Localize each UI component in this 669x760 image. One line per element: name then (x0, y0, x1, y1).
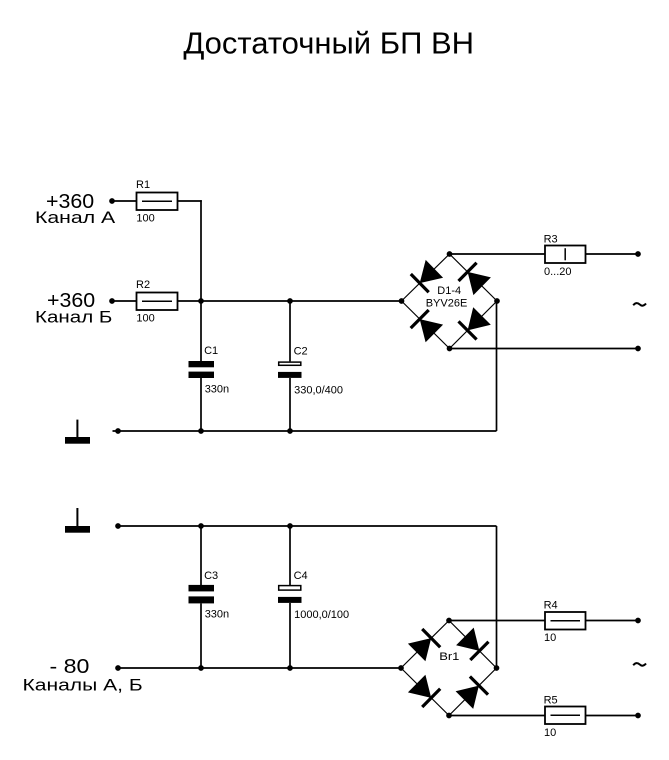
wire ground rail 2 down to Br1 right corner (496, 526, 498, 668)
wire ground rail 2 (118, 525, 497, 527)
diode D3 (bottom-left arm) (411, 310, 443, 342)
ground symbol 1 stem (76, 420, 78, 437)
wire R1 output horizontal (178, 200, 202, 202)
AC tilde mark lower (633, 663, 646, 666)
svg-text:C2: C2 (294, 346, 308, 358)
svg-text:C1: C1 (204, 345, 218, 357)
junction node C2 top (287, 298, 293, 304)
junction node C3 bottom (198, 665, 204, 671)
bridge Br1 edge left-top (401, 621, 449, 669)
resistor R4 body (545, 612, 586, 630)
node bridge bottom corner (447, 346, 453, 352)
bridge D1-4 edge top-right (450, 254, 498, 301)
capacitor C4 positive plate (hollow) (279, 586, 301, 591)
wire R5 to AC terminal (586, 715, 639, 717)
svg-text:0...20: 0...20 (544, 266, 572, 278)
terminal node AC R4 (635, 618, 641, 624)
svg-text:330n: 330n (205, 383, 229, 395)
bridge D1-4 edge bottom-left (402, 301, 450, 349)
capacitor C1 plate bottom (189, 372, 215, 378)
terminal node AC R5 (635, 713, 641, 719)
bridge Br1 edge bottom-left (401, 668, 449, 716)
wire C1 lower lead (200, 378, 202, 431)
junction node C3 top (198, 523, 204, 529)
svg-text:10: 10 (544, 727, 556, 739)
capacitor C3 plate bottom (189, 596, 215, 603)
svg-text:10: 10 (544, 632, 556, 644)
svg-text:BYV26E: BYV26E (426, 297, 468, 309)
wire R2 to bridge left corner (178, 300, 402, 302)
svg-text:- 80: - 80 (50, 654, 90, 677)
wire C3 upper lead (200, 526, 202, 585)
wire input B to R2 (112, 300, 137, 302)
resistor R3 power mark (564, 248, 566, 260)
Br1 diode top-right arm (456, 628, 488, 660)
svg-text:R3: R3 (544, 234, 558, 246)
wire R1 drop vertical to node (200, 200, 202, 301)
capacitor C1 plate top (189, 361, 215, 367)
wire R3 to AC terminal (586, 253, 639, 255)
svg-text:100: 100 (136, 312, 154, 324)
wire C1 upper lead (200, 301, 202, 361)
resistor R2 power mark (142, 300, 172, 302)
diode D1 (top-left arm) (411, 260, 443, 292)
junction node C1 bottom (198, 428, 204, 434)
junction node C4 top (287, 523, 293, 529)
junction node C4 bottom (287, 665, 293, 671)
svg-text:Каналы А, Б: Каналы А, Б (23, 676, 143, 695)
node bridge top corner (447, 251, 453, 257)
resistor R5 body (545, 707, 586, 725)
resistor R1 power mark (142, 200, 172, 202)
wire -80 rail to Br1 left corner (118, 667, 401, 669)
svg-text:Br1: Br1 (439, 650, 460, 663)
diode D2 (top-right arm) (459, 263, 491, 295)
svg-text:D1-4: D1-4 (437, 285, 461, 297)
wire bridge top corner to R3 (450, 253, 546, 255)
Br1 diode top-left arm (408, 629, 440, 661)
wire Br1 top corner to R4 (449, 620, 545, 622)
node bridge left corner (399, 298, 405, 304)
node ground rail 1 left (115, 428, 121, 434)
Br1 diode bottom-left arm (408, 675, 440, 707)
terminal node +360 channel B (109, 298, 115, 304)
terminal node AC lower (635, 346, 641, 352)
svg-text:100: 100 (136, 212, 154, 224)
wire ground rail 1 (113, 430, 497, 432)
resistor R1 body (137, 193, 178, 211)
ground symbol 2 stem (76, 508, 78, 526)
wire C3 lower lead (200, 603, 202, 668)
svg-text:330n: 330n (205, 608, 229, 620)
node Br1 left corner (398, 665, 404, 671)
svg-text:R2: R2 (136, 279, 150, 291)
Br1 diode bottom-right arm (456, 677, 488, 709)
wire bridge bottom corner to AC terminal (450, 348, 639, 350)
junction node R1/R2/C1 (198, 298, 204, 304)
wire C2 lower lead (289, 378, 291, 431)
svg-text:330,0/400: 330,0/400 (294, 384, 343, 396)
bridge Br1 edge right-bottom (449, 668, 497, 716)
wire C4 upper lead (289, 526, 291, 585)
resistor R2 body (137, 293, 178, 311)
node bridge right corner (494, 298, 500, 304)
wire C4 lower lead (289, 603, 291, 668)
AC tilde mark upper (633, 303, 646, 306)
wire C2 upper lead (289, 301, 291, 361)
ground symbol 2 bar (65, 526, 90, 533)
wire Br1 bottom corner to R5 (449, 715, 545, 717)
svg-text:Канал А: Канал А (35, 209, 115, 228)
capacitor C2 positive plate (hollow) (279, 362, 301, 365)
node Br1 right corner (494, 665, 500, 671)
svg-text:R1: R1 (136, 179, 150, 191)
bridge D1-4 edge right-bottom (450, 301, 498, 349)
node Br1 bottom corner (446, 713, 452, 719)
svg-text:R5: R5 (544, 695, 558, 707)
svg-text:C4: C4 (294, 570, 308, 582)
bridge D1-4 edge left-top (402, 254, 450, 301)
wire R4 to AC terminal (586, 620, 639, 622)
terminal node -80 (115, 665, 121, 671)
svg-text:1000,0/100: 1000,0/100 (294, 609, 349, 621)
bridge Br1 edge top-right (449, 621, 497, 669)
ground symbol 1 bar (65, 437, 90, 444)
capacitor C3 plate top (189, 585, 215, 592)
terminal node +360 channel A (109, 198, 115, 204)
resistor R3 body (545, 246, 586, 264)
resistor R5 power mark (551, 714, 581, 716)
svg-text:Канал Б: Канал Б (35, 307, 112, 326)
terminal node AC upper (635, 251, 641, 257)
node ground rail 2 left (115, 523, 121, 529)
svg-text:Достаточный БП ВН: Достаточный БП ВН (183, 26, 474, 61)
wire bridge right corner down to ground rail 1 (496, 301, 498, 431)
junction node C2 bottom (287, 428, 293, 434)
svg-text:C3: C3 (204, 570, 218, 582)
svg-text:R4: R4 (544, 600, 558, 612)
capacitor C4 negative plate (278, 597, 302, 603)
wire input A to R1 (112, 200, 137, 202)
node Br1 top corner (446, 618, 452, 624)
capacitor C2 negative plate (278, 372, 302, 378)
resistor R4 power mark (551, 620, 581, 622)
diode D4 (bottom-right arm) (459, 307, 491, 339)
